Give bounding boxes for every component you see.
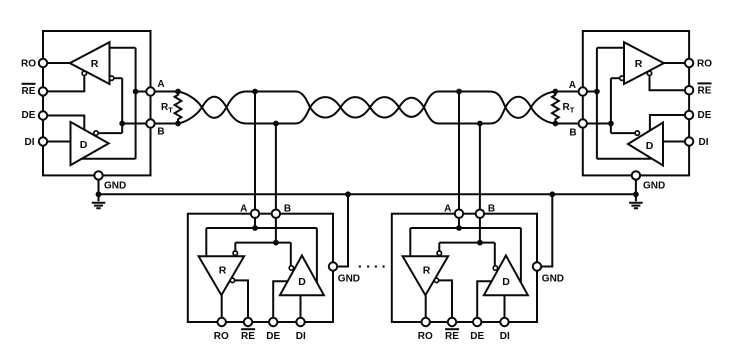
wire DE to D enable <box>48 116 85 130</box>
junction net B U4 <box>477 240 483 246</box>
svg-text:GND: GND <box>542 273 564 284</box>
junction GND bus U3 <box>345 191 351 197</box>
svg-text:R: R <box>219 265 227 277</box>
pin B U4 <box>476 210 484 218</box>
junction node A U1 <box>133 89 139 95</box>
resistor RT right <box>552 92 559 124</box>
wire D noninverting output to net A <box>82 158 136 160</box>
wire D noninverting output to net A U2 <box>597 158 651 160</box>
wire net A horizontal U3 <box>206 227 317 229</box>
pin DE U2 <box>685 111 693 119</box>
svg-text:DE: DE <box>22 110 36 121</box>
ground symbol left <box>92 194 106 208</box>
pin DI U3 <box>296 318 304 326</box>
junction tap A U3 <box>252 89 258 95</box>
wire B pin to net U3 <box>275 218 277 243</box>
wire R input A U2 <box>597 47 624 49</box>
op-amp U1 driver D triangle <box>71 122 109 165</box>
bubble R input B U3 <box>233 251 237 255</box>
bubble D output B U3 <box>289 266 293 270</box>
svg-text:DE: DE <box>470 331 484 342</box>
wire twisted pair lens left bottom <box>178 107 202 123</box>
svg-text:DI: DI <box>500 331 510 342</box>
wire GND pin to bus U4 <box>542 194 553 266</box>
svg-text:A: A <box>569 80 576 91</box>
junction RT top right <box>553 89 559 95</box>
junction node A U2 <box>594 89 600 95</box>
wire net B to R bubble U3 <box>234 243 236 251</box>
junction tap A U4 <box>456 89 462 95</box>
wire twisted pair lens left top <box>178 92 202 108</box>
pin RE U1 <box>39 87 47 95</box>
svg-text:GND: GND <box>338 273 360 284</box>
svg-text:B: B <box>284 204 291 215</box>
wire net B horizontal U3 <box>235 242 290 244</box>
pin A U2 <box>579 87 587 95</box>
pin GND U3 <box>329 262 337 270</box>
pin RE U4 <box>448 318 456 326</box>
op-amp U2 receiver R triangle <box>624 42 664 84</box>
wire GND pin to bus U3 <box>338 194 349 266</box>
wire RE to R enable <box>48 76 85 91</box>
svg-text:RE: RE <box>22 86 36 97</box>
wire net A vertical U2 <box>596 48 598 159</box>
pin B U2 <box>579 119 587 127</box>
wire GND U1 <box>98 180 100 195</box>
wire twisted pair eye 4 <box>370 97 399 117</box>
svg-text:D: D <box>298 276 306 288</box>
transceiver U2 box <box>583 31 689 175</box>
pin A U1 <box>146 87 154 95</box>
svg-text:RO: RO <box>21 59 36 70</box>
junction GND U2 <box>633 191 639 197</box>
svg-text:D: D <box>502 276 510 288</box>
wire GND U2 <box>635 180 637 195</box>
wire DE to D enable U4 <box>477 281 492 318</box>
wire twisted pair eye 1 <box>202 97 227 118</box>
junction node B U2 <box>608 121 614 127</box>
wire net B horizontal U4 <box>439 242 495 244</box>
pin B U3 <box>272 210 280 218</box>
pin GND U2 <box>632 171 640 179</box>
svg-text:DI: DI <box>25 137 35 148</box>
wire net A to D output U3 <box>316 228 318 283</box>
bubble R enable U1 <box>82 71 86 75</box>
svg-text:D: D <box>646 140 654 152</box>
svg-text:DE: DE <box>698 110 712 121</box>
wire twisted pair open section 2 <box>424 92 505 124</box>
op-amp U3 receiver R triangle <box>199 256 245 295</box>
svg-text:RO: RO <box>214 331 229 342</box>
wire R enable to RE U4 <box>439 280 452 317</box>
junction RT bottom right <box>553 121 559 127</box>
svg-text:RE: RE <box>241 331 255 342</box>
svg-text:R: R <box>91 58 99 70</box>
wire DI to D input U4 <box>504 295 506 318</box>
svg-text:T: T <box>168 106 173 115</box>
wire R enable to RE U3 <box>235 280 248 317</box>
wire R input B from bubble <box>114 77 122 79</box>
junction net A U3 <box>252 225 258 231</box>
wire net A horizontal U4 <box>410 227 521 229</box>
junction node B U1 <box>119 121 125 127</box>
wire node B right <box>555 123 611 125</box>
wire node B U1 <box>122 123 178 125</box>
op-amp U2 driver D triangle <box>628 123 663 166</box>
junction net B U3 <box>273 240 279 246</box>
junction net A U4 <box>456 225 462 231</box>
wire net B to R bubble U4 <box>438 243 440 251</box>
pin RO U4 <box>422 318 430 326</box>
transceiver U4 box <box>392 214 537 322</box>
wire twisted pair lens right top <box>531 92 555 108</box>
wire tap A transceiver U3 <box>254 92 256 210</box>
op-amp U4 driver D triangle <box>484 256 528 296</box>
svg-text:B: B <box>488 204 495 215</box>
wire twisted pair lens right bottom <box>531 107 555 123</box>
wire RE to R enable U2 <box>650 76 685 90</box>
wire R input B from bubble U2 <box>611 77 620 79</box>
wire R output to RO U3 <box>221 295 223 318</box>
pin A U4 <box>455 210 463 218</box>
bubble R enable U3 <box>230 278 234 282</box>
op-amp U1 receiver R triangle <box>70 42 110 84</box>
wire net B to D bubble U4 <box>494 243 496 266</box>
pin DE U3 <box>269 318 277 326</box>
svg-text:GND: GND <box>104 180 126 191</box>
svg-text:RO: RO <box>697 59 712 70</box>
wire R output to RO U2 <box>664 62 685 64</box>
junction GND bus U4 <box>549 191 555 197</box>
pin GND U4 <box>533 262 541 270</box>
svg-text:DE: DE <box>266 331 280 342</box>
ellipsis more transceivers <box>359 266 361 268</box>
pin DE U4 <box>473 318 481 326</box>
svg-text:A: A <box>444 204 451 215</box>
pin RE U3 <box>244 318 252 326</box>
wire B pin to net U4 <box>479 218 481 243</box>
pin B U1 <box>146 119 154 127</box>
svg-text:R: R <box>423 265 431 277</box>
wire net A to R input U3 <box>205 228 207 256</box>
pin DE U1 <box>39 111 47 119</box>
bubble R enable U4 <box>434 278 438 282</box>
svg-text:GND: GND <box>643 180 665 191</box>
wire tap A transceiver U4 <box>458 92 460 210</box>
junction tap B U3 <box>273 121 279 127</box>
op-amp U4 receiver R triangle <box>403 256 449 295</box>
wire node A U1 <box>136 91 178 93</box>
wire DI to D input U3 <box>300 295 302 318</box>
wire A pin to net U4 <box>458 218 460 228</box>
svg-text:B: B <box>157 127 164 138</box>
op-amp U3 driver D triangle <box>280 256 324 296</box>
svg-text:T: T <box>570 106 575 115</box>
bubble R input B U4 <box>437 251 441 255</box>
svg-text:A: A <box>240 204 247 215</box>
bubble R input B U2 <box>620 76 624 80</box>
pin RO U1 <box>39 59 47 67</box>
wire net A to D output U4 <box>520 228 522 283</box>
svg-text:A: A <box>157 79 164 90</box>
junction GND U1 <box>96 191 102 197</box>
wire net A vertical U1 <box>135 48 137 159</box>
wire twisted pair open section 1 <box>227 92 311 124</box>
svg-text:RO: RO <box>418 331 433 342</box>
bubble R input B U1 <box>109 76 113 80</box>
wire net B vertical U1 <box>121 78 123 133</box>
wire node A right <box>555 91 597 93</box>
pin RO U3 <box>218 318 226 326</box>
wire twisted pair eye 3 <box>341 97 371 117</box>
junction tap B U4 <box>477 121 483 127</box>
wire net A to R input U4 <box>409 228 411 256</box>
svg-text:RE: RE <box>698 85 712 96</box>
pin DI U1 <box>39 137 47 145</box>
wire D inverting output to node B <box>99 132 123 134</box>
wire tap B transceiver U4 <box>479 124 481 210</box>
wire RO to R output <box>48 62 70 64</box>
pin DI U2 <box>685 137 693 145</box>
transceiver U3 box <box>188 214 333 322</box>
junction RT bottom left <box>175 121 181 127</box>
bubble D output B U4 <box>493 266 497 270</box>
wire ground bus <box>99 193 636 195</box>
transceiver U1 box <box>43 31 151 175</box>
pin RO U2 <box>685 59 693 67</box>
wire twisted pair eye 2 <box>310 97 341 117</box>
svg-text:D: D <box>80 139 88 151</box>
bubble R enable U2 <box>647 71 651 75</box>
pin GND U1 <box>94 171 102 179</box>
bubble D output B U1 <box>94 131 98 135</box>
bubble D output B U2 <box>635 131 639 135</box>
wire tap B transceiver U3 <box>275 124 277 210</box>
ground symbol right <box>629 194 643 208</box>
wire R output to RO U4 <box>425 295 427 318</box>
wire twisted pair eye 5 <box>399 98 424 117</box>
wire R input A <box>110 47 136 49</box>
pin A U3 <box>251 210 259 218</box>
wire net B to D bubble U3 <box>290 243 292 266</box>
wire DI to D input <box>48 141 71 143</box>
wire D inverting output to node B U2 <box>611 132 635 134</box>
svg-text:DI: DI <box>699 137 709 148</box>
resistor RT left <box>175 92 182 124</box>
wire DE to D enable U2 <box>650 115 685 131</box>
svg-text:RE: RE <box>445 331 459 342</box>
wire DE to D enable U3 <box>273 281 288 318</box>
wire DI to D input U2 <box>663 141 684 143</box>
svg-text:B: B <box>569 128 576 139</box>
wire twisted pair eye 6 <box>505 97 531 118</box>
wire A pin to net U3 <box>254 218 256 228</box>
pin DI U4 <box>500 318 508 326</box>
wire net B vertical U2 <box>610 78 612 133</box>
svg-text:R: R <box>635 58 643 70</box>
junction RT top left <box>175 89 181 95</box>
svg-text:DI: DI <box>296 331 306 342</box>
pin RE U2 <box>685 86 693 94</box>
